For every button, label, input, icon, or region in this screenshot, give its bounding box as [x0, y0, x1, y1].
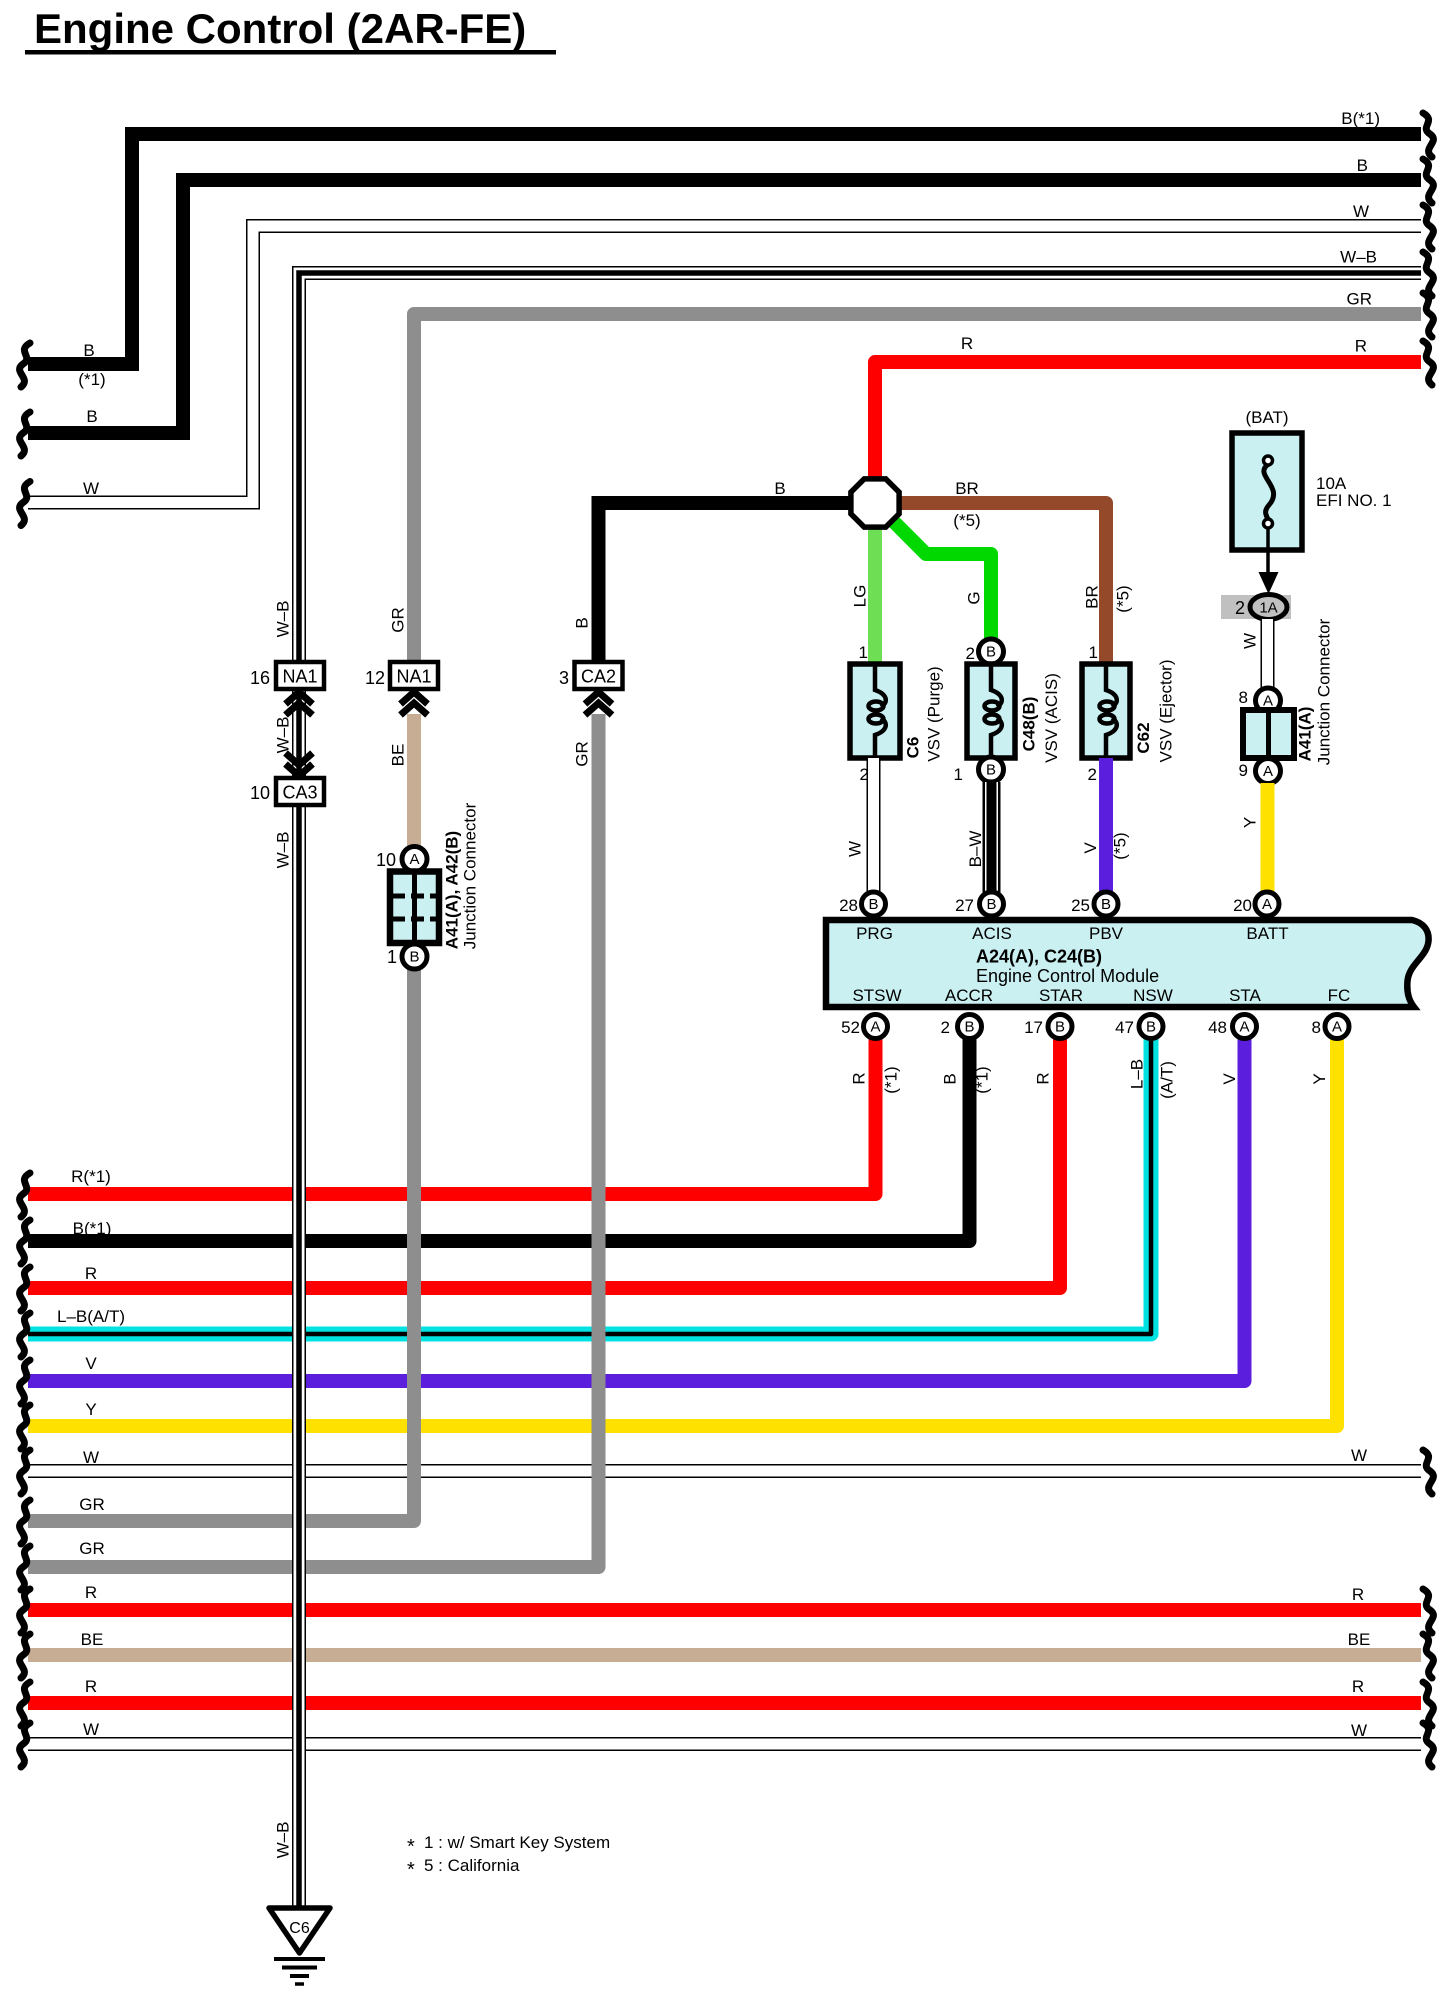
svg-text:R: R — [85, 1264, 97, 1283]
svg-text:W: W — [1351, 1446, 1367, 1465]
svg-text:ACIS: ACIS — [972, 924, 1012, 943]
svg-text:BE: BE — [81, 1630, 104, 1649]
VSV C48(B) pin1 circle — [979, 757, 1004, 782]
svg-text:R: R — [1355, 337, 1367, 356]
wire fuse to 1A — [1266, 528, 1270, 578]
svg-text:5 : California: 5 : California — [424, 1856, 520, 1875]
svg-text:A: A — [1332, 1019, 1342, 1036]
VSV C62 (Ejector) — [1082, 664, 1130, 758]
svg-text:1: 1 — [387, 947, 397, 967]
junction connector A41(A),A42(B) box — [390, 872, 439, 944]
svg-text:B: B — [409, 949, 419, 966]
svg-text:W: W — [83, 1720, 99, 1739]
ECM pin 48 A — [1233, 1015, 1257, 1039]
svg-text:R: R — [85, 1677, 97, 1696]
svg-text:(*5): (*5) — [953, 511, 980, 530]
wire W 1A to junction A8 — [1261, 619, 1275, 692]
wire LG octagon to C6 — [868, 520, 882, 668]
svg-text:STSW: STSW — [852, 986, 901, 1005]
wire R bottom 2 — [28, 1696, 1421, 1710]
svg-text:3: 3 — [559, 668, 569, 688]
wire GR gray top — [414, 314, 1421, 668]
svg-text:(*5): (*5) — [1114, 585, 1133, 612]
wire Y from ECM 8A — [28, 1039, 1337, 1426]
svg-text:Y: Y — [1310, 1073, 1329, 1084]
svg-text:48: 48 — [1208, 1018, 1227, 1037]
svg-text:B: B — [1357, 156, 1368, 175]
svg-text:2: 2 — [1235, 598, 1245, 618]
svg-text:Y: Y — [1241, 817, 1260, 828]
svg-text:NA1: NA1 — [282, 667, 317, 687]
svg-text:G: G — [965, 591, 984, 604]
svg-text:B: B — [573, 617, 592, 628]
connector CA2 pin3 — [575, 662, 623, 689]
svg-text:B(*1): B(*1) — [73, 1219, 112, 1238]
svg-text:R(*1): R(*1) — [71, 1167, 111, 1186]
svg-text:GR: GR — [79, 1495, 105, 1514]
node octagon junction — [851, 479, 899, 527]
svg-text:BATT: BATT — [1246, 924, 1288, 943]
left edge terminators — [20, 343, 30, 387]
svg-text:1 : w/ Smart Key System: 1 : w/ Smart Key System — [424, 1833, 610, 1852]
wire GR from CA2 — [28, 714, 599, 1567]
svg-text:L–B(A/T): L–B(A/T) — [57, 1307, 125, 1326]
wire B(*1) black top — [28, 134, 1421, 364]
node 1A — [1221, 595, 1291, 619]
ECM A24(A) C24(B) Engine Control Module — [826, 920, 1429, 1007]
svg-text:C6: C6 — [289, 1920, 310, 1937]
svg-text:(*5): (*5) — [1111, 832, 1130, 859]
chevrons below NA1 16 — [286, 692, 313, 704]
wire R red top — [875, 362, 1421, 486]
svg-text:9: 9 — [1239, 761, 1248, 780]
svg-text:Junction Connector: Junction Connector — [461, 802, 480, 949]
svg-text:STAR: STAR — [1039, 986, 1083, 1005]
svg-text:BE: BE — [389, 744, 408, 767]
svg-text:GR: GR — [573, 741, 592, 767]
svg-text:A: A — [1263, 763, 1273, 780]
svg-text:(BAT): (BAT) — [1245, 408, 1288, 427]
svg-text:W: W — [83, 479, 99, 498]
wire B(*1) from ECM 2B — [28, 1039, 970, 1241]
svg-text:1: 1 — [1089, 643, 1098, 662]
junction connector A41(A) pin A8 — [1256, 688, 1281, 713]
connector CA3 pin10 — [276, 778, 324, 805]
svg-text:R: R — [850, 1072, 869, 1084]
chevrons below CA2 — [585, 692, 612, 704]
junction connector A41(A),A42(B) pin A — [402, 847, 427, 872]
svg-text:W–B: W–B — [274, 832, 293, 869]
svg-text:8: 8 — [1239, 688, 1248, 707]
svg-text:B: B — [941, 1073, 960, 1084]
svg-text:(*1): (*1) — [973, 1066, 992, 1093]
wire B-W C48 to ECM 27B — [983, 782, 1001, 897]
svg-text:*: * — [407, 1859, 415, 1881]
svg-text:BR: BR — [955, 479, 979, 498]
svg-text:B: B — [86, 407, 97, 426]
svg-text:NSW: NSW — [1133, 986, 1173, 1005]
svg-text:47: 47 — [1115, 1018, 1134, 1037]
svg-text:R: R — [961, 334, 973, 353]
svg-text:STA: STA — [1229, 986, 1261, 1005]
svg-text:CA2: CA2 — [581, 667, 616, 687]
svg-text:B: B — [964, 1019, 974, 1036]
svg-text:R: R — [1352, 1677, 1364, 1696]
svg-text:2: 2 — [966, 644, 975, 663]
svg-text:A41(A), A42(B): A41(A), A42(B) — [443, 831, 462, 949]
ECM pin 25 B — [1094, 892, 1118, 916]
svg-text:W–B: W–B — [274, 717, 293, 754]
ECM pin 27 B — [980, 892, 1004, 916]
svg-text:B: B — [986, 762, 996, 779]
svg-text:B–W: B–W — [966, 831, 985, 868]
svg-text:B: B — [1146, 1019, 1156, 1036]
svg-text:FC: FC — [1328, 986, 1351, 1005]
wire W full width mid — [28, 1464, 1421, 1478]
wire W-B from right edge down to ground — [299, 273, 1421, 1908]
chevrons above CA3 — [286, 753, 313, 765]
ECM pin 47 B — [1139, 1015, 1163, 1039]
svg-text:Engine Control Module: Engine Control Module — [976, 966, 1159, 986]
svg-text:VSV (Purge): VSV (Purge) — [925, 666, 944, 761]
ground C6 — [269, 1908, 330, 1953]
svg-text:R: R — [1034, 1072, 1053, 1084]
svg-text:A41(A): A41(A) — [1296, 707, 1315, 762]
svg-text:V: V — [1220, 1073, 1239, 1085]
svg-text:R: R — [85, 1583, 97, 1602]
wire W white top — [28, 226, 1421, 503]
svg-text:W: W — [846, 841, 865, 857]
svg-text:C62: C62 — [1134, 722, 1153, 753]
VSV C6 (Purge) — [850, 664, 900, 758]
svg-text:V: V — [1081, 842, 1100, 854]
svg-text:17: 17 — [1024, 1018, 1043, 1037]
svg-text:W: W — [83, 1448, 99, 1467]
svg-text:25: 25 — [1071, 896, 1090, 915]
svg-text:Engine Control (2AR-FE): Engine Control (2AR-FE) — [34, 5, 526, 52]
fuse 10A EFI NO.1 — [1232, 433, 1302, 550]
svg-text:8: 8 — [1312, 1018, 1321, 1037]
svg-text:LG: LG — [851, 585, 870, 608]
VSV C48(B) pin2 circle — [979, 639, 1004, 664]
svg-text:GR: GR — [389, 607, 408, 633]
connector NA1 pin16 — [276, 662, 324, 689]
svg-text:W–B: W–B — [274, 601, 293, 638]
svg-text:B: B — [868, 896, 878, 913]
svg-text:W–B: W–B — [274, 1822, 293, 1859]
wire R(*1) from ECM 52A — [28, 1039, 876, 1194]
svg-text:VSV (ACIS): VSV (ACIS) — [1042, 673, 1061, 763]
svg-text:BR: BR — [1083, 585, 1102, 609]
svg-text:C6: C6 — [904, 737, 923, 759]
svg-text:A: A — [1262, 896, 1272, 913]
svg-text:B: B — [1055, 1019, 1065, 1036]
svg-text:28: 28 — [839, 896, 858, 915]
svg-text:*: * — [407, 1836, 415, 1858]
chevrons below NA1 12 — [401, 692, 428, 704]
connector NA1 pin12 — [390, 662, 438, 689]
svg-text:Junction Connector: Junction Connector — [1315, 618, 1334, 765]
wire GR from junction connector — [28, 966, 414, 1521]
svg-text:B: B — [986, 896, 996, 913]
svg-text:1: 1 — [954, 765, 963, 784]
wire W bottom — [28, 1737, 1421, 1751]
svg-text:A: A — [1263, 693, 1273, 710]
wire G octagon to C48 — [891, 519, 991, 641]
svg-text:VSV (Ejector): VSV (Ejector) — [1157, 660, 1176, 763]
wire B black top — [28, 180, 1421, 433]
svg-text:B: B — [986, 644, 996, 661]
svg-text:B(*1): B(*1) — [1341, 109, 1380, 128]
svg-text:CA3: CA3 — [282, 783, 317, 803]
svg-text:EFI NO. 1: EFI NO. 1 — [1316, 491, 1392, 510]
svg-text:B: B — [83, 341, 94, 360]
svg-text:L–B: L–B — [1128, 1059, 1147, 1089]
wire BE NA1 to junction connector — [407, 714, 421, 850]
svg-text:2: 2 — [1088, 765, 1097, 784]
svg-text:GR: GR — [79, 1539, 105, 1558]
svg-text:B: B — [1101, 896, 1111, 913]
svg-text:52: 52 — [841, 1018, 860, 1037]
ECM pin 28 B — [862, 892, 886, 916]
wire BE bottom — [28, 1648, 1421, 1662]
wire Y junction to ECM 20A — [1261, 783, 1275, 897]
svg-text:W–B: W–B — [1340, 248, 1377, 267]
svg-text:PBV: PBV — [1089, 924, 1124, 943]
svg-text:A: A — [870, 1019, 880, 1036]
svg-text:B: B — [774, 479, 785, 498]
svg-text:27: 27 — [955, 896, 974, 915]
ECM pin 52 A — [864, 1015, 888, 1039]
svg-text:GR: GR — [1347, 290, 1373, 309]
ECM pin 17 B — [1048, 1015, 1072, 1039]
svg-text:2: 2 — [941, 1018, 950, 1037]
ECM pin 2 B — [958, 1015, 982, 1039]
svg-text:Y: Y — [85, 1400, 96, 1419]
svg-text:W: W — [1353, 202, 1369, 221]
svg-text:20: 20 — [1233, 896, 1252, 915]
ECM pin 8 A — [1325, 1015, 1349, 1039]
svg-text:(*1): (*1) — [882, 1066, 901, 1093]
svg-text:BE: BE — [1348, 1630, 1371, 1649]
svg-text:A24(A), C24(B): A24(A), C24(B) — [976, 947, 1102, 967]
svg-text:A: A — [409, 851, 419, 868]
wire W C6 to ECM 28B — [867, 758, 881, 897]
arrow down — [1259, 572, 1279, 594]
svg-text:R: R — [1352, 1585, 1364, 1604]
wire R from ECM 17B — [28, 1039, 1060, 1288]
svg-text:16: 16 — [250, 668, 270, 688]
wire BR octagon to C62 — [898, 503, 1106, 668]
wire L-B(A/T) from ECM 47B — [28, 1039, 1151, 1334]
junction connector A41(A),A42(B) pin B — [402, 944, 427, 969]
svg-text:1: 1 — [859, 643, 868, 662]
junction connector A41(A) pin A9 — [1256, 759, 1281, 784]
svg-text:W: W — [1351, 1721, 1367, 1740]
svg-text:NA1: NA1 — [396, 667, 431, 687]
svg-text:A: A — [1239, 1019, 1249, 1036]
svg-text:(A/T): (A/T) — [1158, 1061, 1177, 1099]
svg-text:10: 10 — [376, 850, 396, 870]
VSV C48(B) (ACIS) — [967, 664, 1015, 758]
svg-text:C48(B): C48(B) — [1020, 697, 1039, 752]
svg-text:ACCR: ACCR — [945, 986, 993, 1005]
svg-text:10: 10 — [250, 783, 270, 803]
wire B octagon to CA2 — [599, 503, 853, 668]
svg-text:PRG: PRG — [856, 924, 893, 943]
svg-text:V: V — [85, 1354, 97, 1373]
ECM pin 20 A — [1255, 892, 1279, 916]
wire V C62 to ECM 25B — [1099, 758, 1113, 897]
wire V from ECM 48A — [28, 1039, 1245, 1381]
svg-text:1A: 1A — [1259, 600, 1277, 617]
svg-text:W: W — [1241, 633, 1260, 649]
junction connector A41(A) box — [1243, 710, 1294, 758]
svg-text:(*1): (*1) — [78, 370, 105, 389]
wire R bottom 1 — [28, 1603, 1421, 1617]
right edge terminators — [1423, 113, 1433, 157]
svg-text:12: 12 — [365, 668, 385, 688]
